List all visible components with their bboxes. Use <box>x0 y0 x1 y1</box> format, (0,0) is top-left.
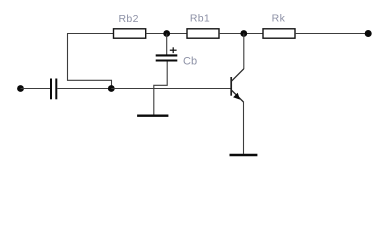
wire top rail: Rk right lead to output terminal <box>295 33 368 35</box>
wire top rail: Rb2 left lead <box>67 33 114 35</box>
wire: emitter down to ground <box>243 102 245 154</box>
wire top rail: Rb1 to Rk <box>219 33 263 35</box>
wire: Cb bottom plate down and left to ground branch <box>154 62 167 89</box>
ground (left, under Cb) <box>137 114 168 116</box>
transistor Q1 (NPN) base bar <box>230 77 232 96</box>
wire: base node to transistor base <box>111 88 231 90</box>
svg-text:Rb1: Rb1 <box>190 13 210 25</box>
node: input terminal dot <box>17 85 24 92</box>
node: base junction dot <box>108 85 115 92</box>
capacitor C-in (input coupling, left plate) <box>50 79 52 100</box>
node: base-divider junction dot (Rb2/Rb1/Cb) <box>163 30 170 37</box>
transistor Q1 collector diagonal <box>232 69 244 81</box>
node: collector junction dot (Rb1/Rk/collector) <box>240 30 247 37</box>
capacitor Cb polarity mark + <box>170 47 177 53</box>
capacitor C-in (input coupling, right plate) <box>55 79 57 100</box>
wire: junction dot down to Cb top plate <box>166 34 168 55</box>
wire: Rb2 left feedback branch (down, right, down to input node) <box>68 34 112 90</box>
resistor Rb2 <box>114 29 146 38</box>
node: output terminal dot <box>365 30 372 37</box>
svg-text:Rb2: Rb2 <box>118 13 138 25</box>
resistor Rb1 <box>187 29 219 38</box>
capacitor Cb top plate <box>156 54 178 56</box>
wire: collector junction down to transistor collector <box>243 34 245 70</box>
wire: input terminal to coupling capacitor <box>21 88 51 90</box>
transistor Q1 emitter diagonal <box>232 90 244 102</box>
transistor Q1 emitter arrowhead <box>233 93 240 100</box>
wire: coupling capacitor to base node <box>57 88 111 90</box>
wire top rail: Rb2 to Rb1 <box>146 33 187 35</box>
svg-text:Cb: Cb <box>183 56 197 68</box>
resistor Rk <box>263 29 295 38</box>
svg-text:Rk: Rk <box>272 13 286 25</box>
ground (under emitter) <box>230 154 258 156</box>
capacitor Cb bottom plate <box>156 59 178 61</box>
wire: ground branch down from rail <box>153 89 155 115</box>
